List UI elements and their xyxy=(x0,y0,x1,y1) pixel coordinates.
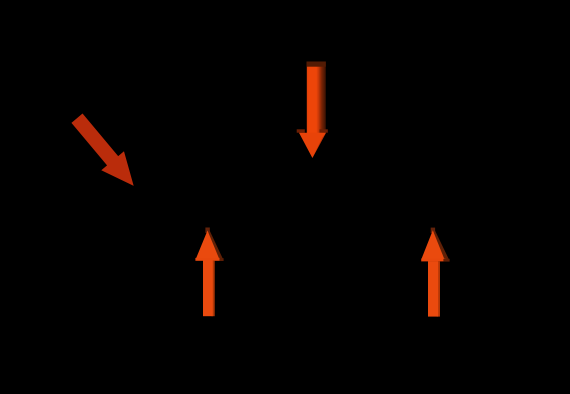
dark bevel strip along upper-right head edge xyxy=(433,228,450,260)
diagonal arrow (top-left, pointing down-right) xyxy=(66,109,145,196)
dark tip stub xyxy=(431,228,435,233)
shaft with horizontal shading gradient xyxy=(307,62,326,134)
head right inner shade xyxy=(312,133,326,158)
flange dark right extension xyxy=(220,258,224,261)
flange bar xyxy=(421,259,445,262)
flange bar xyxy=(195,258,219,261)
left flange bar xyxy=(297,129,305,132)
left up arrow xyxy=(195,228,223,317)
head triangle xyxy=(299,133,326,158)
dark tip stub xyxy=(205,228,209,233)
head triangle xyxy=(196,231,219,259)
shaft xyxy=(428,261,438,316)
right up arrow xyxy=(421,228,449,317)
flange dark right extension xyxy=(443,259,449,262)
down arrow (top middle) xyxy=(297,62,328,159)
right flange bar xyxy=(320,129,328,132)
dark bevel strip along upper-right head edge xyxy=(207,228,223,260)
shaft dark right edge xyxy=(212,261,215,317)
shaft top dark cap xyxy=(307,62,326,67)
head triangle xyxy=(422,230,445,258)
shaft xyxy=(203,261,213,317)
shaft dark right edge xyxy=(437,261,440,316)
